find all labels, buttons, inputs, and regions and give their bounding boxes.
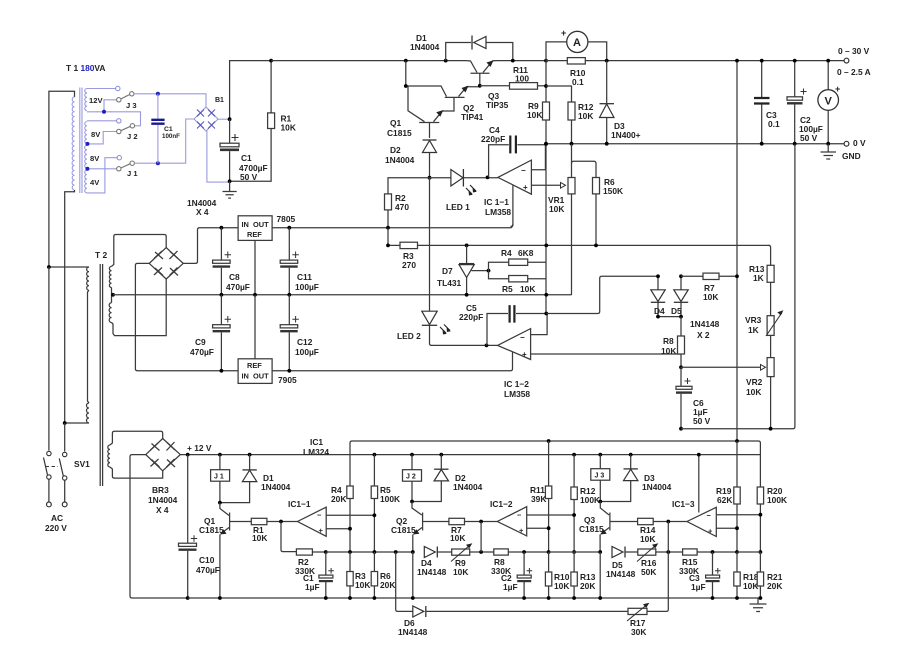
potentiometer VR2 10K (746, 358, 774, 429)
capacitor C5 220pF (459, 303, 546, 345)
node IC1-1 osc output (279, 520, 283, 524)
svg-text:C10: C10 (199, 555, 215, 565)
svg-text:470µF: 470µF (226, 282, 250, 292)
wire mid row ch2 (549, 551, 601, 553)
resistor R6 150K (593, 177, 624, 245)
diode D5 osc 1N4148 (606, 547, 636, 580)
transformer T1 core (80, 88, 82, 194)
svg-text:GND: GND (842, 151, 861, 161)
wire IC1-2 out down (480, 522, 482, 553)
wire IC1-2 osc plus row (527, 527, 549, 529)
svg-text:B1: B1 (215, 97, 224, 104)
resistor R3 osc 10K (347, 552, 371, 598)
node Q3 emitter mid row (598, 550, 602, 554)
wire stub2 (87, 120, 117, 122)
node C11 bottom (287, 293, 291, 297)
wire R9 column top (545, 61, 547, 102)
node R12 mid row (572, 550, 576, 554)
svg-text:D7: D7 (442, 266, 453, 276)
jumper J1 (117, 161, 139, 178)
svg-text:T 1 180VA: T 1 180VA (66, 63, 105, 73)
svg-text:10K: 10K (554, 581, 569, 591)
svg-text:50K: 50K (641, 567, 656, 577)
resistor R1 (232, 61, 296, 182)
node collector tie (404, 84, 408, 88)
node R19 mid row (735, 550, 739, 554)
wire gnd rail (546, 143, 846, 145)
svg-text:470µF: 470µF (196, 565, 220, 575)
svg-text:470µF: 470µF (190, 347, 214, 357)
svg-text:7805: 7805 (277, 214, 296, 224)
node tap C (85, 167, 89, 171)
svg-text:0.1: 0.1 (768, 119, 780, 129)
transformer T2 secondary winding lower (109, 303, 111, 323)
svg-text:10K: 10K (743, 581, 758, 591)
node C10 top (186, 453, 190, 457)
node V top (826, 59, 830, 63)
op-amp IC1-2 LM358 (498, 329, 531, 399)
node C5 right (544, 312, 548, 316)
wire IC1-1 vminus stub (511, 186, 513, 227)
diode D4 osc 1N4148 (417, 547, 447, 578)
node C3 osc bottom (711, 596, 715, 600)
capacitor C6 1uF (676, 367, 711, 428)
svg-text:+: + (523, 183, 528, 192)
node R8 bottom (679, 365, 683, 369)
wire Q3 emitter to gnd (599, 552, 601, 598)
node D1b rail (248, 453, 252, 457)
wire 7805 ref pin up (254, 295, 256, 359)
svg-text:D4: D4 (654, 306, 665, 316)
trimmer R16 osc 50K (625, 543, 683, 577)
svg-text:A: A (573, 37, 581, 49)
svg-text:BR3: BR3 (152, 485, 169, 495)
svg-text:C9: C9 (195, 337, 206, 347)
node R12 gnd rail (570, 142, 574, 146)
svg-text:SV1: SV1 (74, 459, 90, 469)
wire R2 top to LED1 (388, 178, 451, 194)
wire bridge bottom to gnd node (206, 131, 230, 182)
svg-text:+: + (561, 28, 566, 38)
node C9 bottom (220, 369, 224, 373)
svg-text:D2: D2 (390, 145, 401, 155)
transistor Q1 C1815 (387, 86, 443, 138)
svg-text:C12: C12 (297, 337, 313, 347)
node TL431 ref (487, 269, 491, 273)
node C2 top (793, 59, 797, 63)
wire IC1-2 osc minus row (527, 514, 574, 516)
transformer T1 primary winding (72, 97, 74, 190)
node TL431 bottom (465, 293, 469, 297)
wire bridge right to C1+ node (218, 118, 230, 120)
terminal stub circle 1 (116, 86, 120, 90)
capacitor C3 osc 1uF (689, 552, 721, 598)
node C1 osc bottom (324, 596, 328, 600)
svg-text:1K: 1K (748, 325, 759, 335)
node 7805 ref (253, 293, 257, 297)
resistor R6 osc 20K (371, 552, 395, 598)
svg-text:C1: C1 (241, 153, 252, 163)
resistor R13 osc 20K (571, 552, 596, 598)
node R4 mid row (348, 550, 352, 554)
svg-text:−: − (517, 511, 522, 520)
terminal AC left (47, 502, 52, 507)
capacitor C3 0.1 (754, 61, 780, 144)
node R18 gnd (735, 596, 739, 600)
capacitor C1 osc 1uF (303, 552, 334, 598)
potentiometer VR1 (548, 144, 575, 295)
wire D6 row left (396, 552, 413, 611)
resistor R10 osc 10K (545, 552, 569, 598)
diode D4 (651, 276, 665, 316)
svg-text:30K: 30K (631, 627, 646, 637)
svg-text:X 4: X 4 (156, 505, 169, 515)
svg-text:100K: 100K (380, 494, 400, 504)
transformer T2 primary winding upper (87, 267, 89, 290)
svg-text:C1815: C1815 (391, 525, 416, 535)
wire T2 sec top to bridge2 (112, 235, 167, 267)
node R20 mid row (759, 550, 763, 554)
node D1 left (444, 59, 448, 63)
svg-text:10K: 10K (281, 123, 296, 133)
bridge rectifier BR3 (146, 439, 181, 516)
node D5 top (679, 274, 683, 278)
node R6 gnd (373, 596, 377, 600)
node C8 bottom (220, 293, 224, 297)
resistor R13 1K (749, 245, 774, 315)
resistor R5 10K (489, 271, 547, 294)
wire T2 primary bottom to AC line (65, 422, 89, 424)
svg-text:100µF: 100µF (295, 347, 319, 357)
wire C5 node to D4 row (546, 276, 658, 313)
svg-text:−: − (520, 333, 525, 342)
node R1 top (269, 59, 273, 63)
resistor R3 270 (400, 242, 770, 270)
transistor Q3 osc (579, 502, 638, 553)
resistor R7 10K (681, 273, 737, 302)
svg-text:R4: R4 (501, 248, 512, 258)
node C1 bottom (156, 161, 160, 165)
svg-text:C1815: C1815 (387, 128, 412, 138)
svg-text:20K: 20K (767, 581, 782, 591)
wire stub3 from winding bottom (87, 158, 117, 193)
node C8 top (220, 226, 224, 230)
wire top rail to Q3 (271, 60, 466, 62)
wire AC line2 down to SV1 (64, 423, 66, 452)
node plus R11 col (547, 526, 551, 530)
diode D2 (385, 140, 437, 178)
svg-text:+: + (835, 84, 840, 94)
node Q3 base R11 (478, 84, 482, 88)
svg-text:X 2: X 2 (697, 330, 710, 340)
wire tap A up to J3 (104, 100, 117, 112)
wire IC1-1 plus input to VR1 (531, 184, 560, 186)
svg-text:J 3: J 3 (126, 101, 137, 110)
resistor R1 osc (251, 518, 297, 543)
capacitor C2 osc 1uF (501, 552, 532, 598)
svg-text:1µF: 1µF (503, 582, 518, 592)
transistor Q1 osc (199, 503, 251, 598)
svg-text:10K: 10K (549, 204, 564, 214)
node R9 gnd rail (544, 142, 548, 146)
wire AC to T2 primary (49, 266, 89, 268)
svg-text:VR2: VR2 (746, 377, 763, 387)
wire J3 to C1 bus (134, 94, 206, 107)
svg-text:220pF: 220pF (459, 312, 483, 322)
wire sense rail A (737, 441, 760, 487)
node Q1 emitter gnd (218, 596, 222, 600)
svg-text:20K: 20K (580, 581, 595, 591)
svg-text:8V: 8V (91, 130, 101, 139)
node R11 R9 (544, 84, 548, 88)
wire R9 column lower (545, 170, 547, 314)
node V bottom (826, 142, 830, 146)
ground symbol output (821, 144, 837, 159)
node D1 right (511, 59, 515, 63)
svg-text:−: − (317, 511, 322, 520)
diode D1 bypass (410, 33, 513, 61)
wire tap B to J2 (87, 132, 117, 144)
svg-text:IC 1−2: IC 1−2 (504, 379, 529, 389)
node tap A (102, 110, 106, 114)
jumper J3 (117, 92, 137, 110)
svg-text:C1: C1 (164, 126, 173, 133)
jumper link J1 (211, 455, 230, 503)
svg-text:LM358: LM358 (485, 207, 511, 217)
wire R12 feed (546, 86, 572, 102)
svg-text:LM324: LM324 (303, 447, 329, 457)
resistor R12 osc 100K (571, 455, 600, 552)
node D4 bottom (656, 315, 660, 319)
resistor R10 0.1 (567, 58, 585, 87)
node C2 top (522, 550, 526, 554)
svg-text:100µF: 100µF (295, 282, 319, 292)
svg-text:+: + (319, 526, 324, 535)
node Q3 emitter gnd (598, 596, 602, 600)
node C6 bottom (679, 427, 683, 431)
resistor R7 osc 10K (449, 518, 497, 543)
wire IC1-2 minus input (531, 314, 548, 335)
resistor R11 (480, 65, 546, 89)
wire IC1-3 out down (667, 522, 669, 553)
node C10 bottom (186, 596, 190, 600)
svg-text:39K: 39K (531, 494, 546, 504)
arrow VR2 wiper (761, 365, 766, 371)
svg-text:1N4004: 1N4004 (148, 495, 178, 505)
svg-text:J 3: J 3 (595, 473, 605, 480)
svg-text:J 2: J 2 (406, 474, 416, 481)
transformer T2 third winding (108, 445, 110, 467)
svg-text:TIP35: TIP35 (486, 100, 509, 110)
bridge rectifier T2 upper (149, 248, 183, 279)
node Q3 collector (598, 500, 602, 504)
node R5 rail (544, 293, 548, 297)
node R5 rail B (373, 453, 377, 457)
svg-text:1N4148: 1N4148 (398, 627, 428, 637)
resistor R2 osc 330K (281, 522, 326, 577)
regulator 7805 (238, 214, 295, 240)
svg-text:IN OUT: IN OUT (242, 220, 270, 229)
terminal 0V (844, 141, 849, 146)
svg-text:50 V: 50 V (800, 133, 818, 143)
node Q2 emitter mid row (411, 550, 415, 554)
wire third winding bottom to BR3 (110, 467, 163, 478)
node R12 rail B (572, 453, 576, 457)
node D5 bottom (679, 315, 683, 319)
jumper J2 (117, 124, 138, 141)
capacitor C10 470uF (179, 455, 220, 598)
svg-text:C8: C8 (229, 272, 240, 282)
svg-text:1N4004: 1N4004 (385, 155, 415, 165)
shunt reference D7 TL431 (437, 245, 489, 294)
svg-text:C11: C11 (297, 272, 312, 282)
node IC1-2 osc output (479, 520, 483, 524)
wire T2 sec bottom to bridge2 (112, 279, 167, 336)
node C3 top (760, 59, 764, 63)
node D4 top (656, 274, 660, 278)
wire IC1-3 plus row (716, 527, 737, 529)
capacitor C11 100uF (280, 228, 319, 295)
node D6 mid row (394, 550, 398, 554)
capacitor C2 100uF (787, 61, 823, 144)
svg-text:J 1: J 1 (214, 474, 224, 481)
node R5 mid row (373, 550, 377, 554)
node T2 center tap (111, 293, 115, 297)
node ammeter left (544, 59, 548, 63)
op-amp IC1-3 (672, 499, 716, 537)
svg-text:TL431: TL431 (437, 278, 462, 288)
diode D5 (671, 276, 720, 340)
svg-text:1N4004: 1N4004 (410, 42, 440, 52)
op-amp IC1-2 osc (490, 499, 527, 536)
node R4 rail (544, 244, 548, 248)
resistor R21 20K (757, 552, 783, 598)
resistor R18 10K (734, 552, 759, 598)
capacitor C4 220pF (481, 125, 546, 177)
wire SV1 to AC terminals (49, 479, 65, 502)
resistor R5 osc 100K (371, 455, 400, 552)
node D3 gnd rail (605, 142, 609, 146)
wire rail A left (350, 441, 737, 486)
node R11 mid row (547, 550, 551, 554)
node IC1-2 output (485, 344, 489, 348)
wire BR3 minus to bottom rail (130, 455, 188, 598)
node R6 rail (594, 244, 598, 248)
svg-text:0 – 2.5 A: 0 – 2.5 A (837, 67, 871, 77)
wire IC1-2 plus input (531, 353, 681, 355)
svg-text:12V: 12V (89, 96, 103, 105)
wire tap A 12V (87, 112, 141, 126)
transformer T2 primary winding lower (87, 403, 89, 423)
wire secondary top end stub (87, 88, 116, 90)
wire mid row ch3 end (737, 551, 760, 553)
resistor R11 osc 39K (530, 441, 552, 552)
svg-text:7905: 7905 (278, 375, 297, 385)
node R10 gnd (547, 596, 551, 600)
node D3b rail (629, 453, 633, 457)
wire VR1 R6 top link (572, 161, 597, 177)
node J1 rail (218, 453, 222, 457)
jumper link J2 (403, 455, 422, 502)
wire BR3 plus 12V rail (180, 454, 760, 456)
node VR2 bottom (769, 427, 773, 431)
potentiometer VR3 1K (745, 310, 783, 357)
transistor Q2 TIP41 (442, 86, 484, 122)
svg-text:270: 270 (402, 260, 416, 270)
svg-text:6K8: 6K8 (518, 248, 534, 258)
svg-text:LED 1: LED 1 (446, 202, 470, 212)
diode D3 osc (600, 455, 671, 502)
terminal 0-30V (844, 58, 849, 63)
svg-text:0.1: 0.1 (572, 77, 584, 87)
regulator 7905 (238, 359, 297, 385)
svg-text:C1815: C1815 (199, 525, 224, 535)
svg-text:1N4004: 1N4004 (642, 482, 672, 492)
wire AC line down to SV1 (48, 267, 50, 451)
wire wiper row to VR2 (681, 366, 761, 368)
node R11 rail A (547, 439, 551, 443)
node C3 osc top (711, 550, 715, 554)
svg-text:+ 12 V: + 12 V (187, 443, 212, 453)
node IC1-3 vplus rail (697, 453, 701, 457)
svg-text:1N4148: 1N4148 (606, 569, 636, 579)
svg-text:−: − (521, 166, 526, 175)
capacitor C8 470uF (213, 228, 250, 295)
svg-text:Q1: Q1 (390, 118, 402, 128)
svg-text:220pF: 220pF (481, 134, 505, 144)
svg-text:IC1−2: IC1−2 (490, 499, 513, 509)
svg-text:LED 2: LED 2 (397, 331, 421, 341)
node R8 left (479, 550, 483, 554)
transistor Q2 osc (391, 502, 449, 553)
op-amp IC1-1 osc (288, 499, 326, 536)
svg-text:4V: 4V (90, 178, 100, 187)
wire T2 primary middle (88, 290, 90, 403)
wire Q2 emitter to gnd (412, 552, 414, 598)
node 7805 out (287, 226, 291, 230)
diode D6 1N4148 (398, 606, 628, 637)
svg-text:VR3: VR3 (745, 315, 762, 325)
node minus R5 col (373, 513, 377, 517)
wire IC1-1 osc minus row (326, 514, 374, 516)
node C1 top (156, 92, 160, 96)
svg-text:100: 100 (515, 74, 529, 84)
wire AC line left to T1 primary (49, 91, 75, 266)
node C4 right (544, 142, 548, 146)
node R3 left (386, 244, 390, 248)
svg-text:R8: R8 (663, 336, 674, 346)
node Q1 collector (218, 501, 222, 505)
node R2 bottom (386, 226, 390, 230)
switch SV1 (44, 451, 91, 480)
svg-text:TIP41: TIP41 (461, 112, 484, 122)
node D2b rail (439, 453, 443, 457)
resistor R20 100K (757, 486, 787, 552)
terminal stub circle 3 (117, 156, 121, 160)
wire 7805 out rail (272, 224, 513, 227)
svg-text:150K: 150K (603, 186, 623, 196)
svg-text:10K: 10K (450, 533, 465, 543)
wire LED1 to IC1-1 out (463, 177, 498, 179)
node R21 gnd (759, 596, 763, 600)
terminal stub circle 2 (117, 119, 121, 123)
wire T1 primary bottom to AC line (65, 190, 75, 423)
svg-text:100K: 100K (767, 495, 787, 505)
svg-text:1N4148: 1N4148 (417, 567, 447, 577)
jumper link J3 (591, 455, 610, 502)
svg-text:0 – 30 V: 0 – 30 V (838, 46, 870, 56)
trimmer R17 30K (627, 552, 668, 637)
